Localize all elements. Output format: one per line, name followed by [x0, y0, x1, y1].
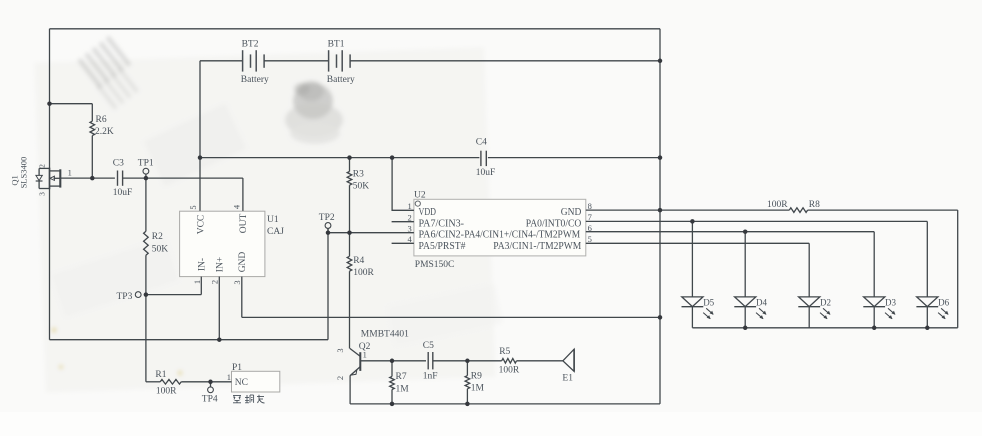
svg-text:100R: 100R — [156, 387, 177, 397]
svg-text:R7: R7 — [396, 372, 407, 382]
svg-text:OUT: OUT — [239, 214, 249, 234]
svg-text:PA3/CIN1-/TM2PWM: PA3/CIN1-/TM2PWM — [493, 241, 581, 252]
svg-text:1: 1 — [227, 372, 231, 382]
svg-text:5: 5 — [188, 205, 198, 209]
svg-text:1: 1 — [363, 349, 367, 359]
svg-text:TP4: TP4 — [202, 394, 218, 404]
svg-text:R4: R4 — [353, 256, 364, 266]
svg-text:U1: U1 — [267, 215, 279, 225]
svg-text:PA6/CIN2-: PA6/CIN2- — [419, 230, 465, 241]
svg-text:R9: R9 — [471, 371, 482, 381]
svg-text:R6: R6 — [96, 115, 107, 125]
svg-text:2: 2 — [408, 212, 412, 222]
svg-text:R3: R3 — [353, 169, 364, 179]
svg-text:10uF: 10uF — [113, 188, 133, 198]
svg-text:50K: 50K — [353, 182, 370, 192]
svg-text:5: 5 — [588, 234, 592, 244]
svg-text:VDD: VDD — [419, 207, 437, 218]
svg-text:2.2K: 2.2K — [95, 127, 114, 137]
svg-text:TP1: TP1 — [138, 159, 154, 169]
svg-text:100R: 100R — [767, 200, 788, 210]
svg-text:1: 1 — [68, 168, 72, 178]
svg-text:GND: GND — [238, 252, 248, 273]
svg-text:50K: 50K — [152, 245, 169, 255]
svg-text:VCC: VCC — [196, 215, 206, 235]
svg-text:4: 4 — [408, 234, 413, 244]
svg-text:D2: D2 — [820, 297, 831, 307]
svg-text:NC: NC — [235, 378, 248, 388]
svg-text:IN+: IN+ — [216, 257, 226, 272]
svg-text:1nF: 1nF — [423, 371, 438, 381]
svg-text:C3: C3 — [113, 159, 124, 169]
svg-text:2: 2 — [335, 376, 345, 380]
svg-text:7: 7 — [588, 212, 592, 222]
svg-text:D5: D5 — [703, 297, 714, 307]
svg-text:Battery: Battery — [241, 75, 269, 85]
svg-text:E1: E1 — [562, 374, 573, 384]
svg-text:3: 3 — [37, 192, 46, 196]
svg-text:Battery: Battery — [327, 75, 355, 85]
svg-text:U2: U2 — [414, 190, 426, 200]
svg-text:MMBT4401: MMBT4401 — [361, 330, 409, 340]
svg-text:PA0/INT0/CO: PA0/INT0/CO — [526, 218, 582, 229]
svg-text:R8: R8 — [809, 200, 820, 210]
svg-text:D6: D6 — [938, 297, 949, 307]
svg-text:3: 3 — [232, 280, 242, 284]
svg-text:4: 4 — [231, 204, 241, 209]
svg-text:100R: 100R — [353, 268, 374, 278]
svg-text:IN-: IN- — [198, 258, 208, 271]
svg-text:3: 3 — [335, 348, 345, 352]
svg-text:R5: R5 — [499, 347, 510, 357]
svg-text:P1: P1 — [232, 363, 242, 373]
svg-text:1M: 1M — [471, 384, 485, 394]
svg-text:PA4/CIN1+/CIN4-/TM2PWM: PA4/CIN1+/CIN4-/TM2PWM — [464, 230, 580, 241]
svg-text:PA7/CIN3-: PA7/CIN3- — [419, 218, 465, 229]
svg-text:1: 1 — [192, 280, 202, 284]
svg-text:CAJ: CAJ — [267, 227, 284, 237]
svg-text:PMS150C: PMS150C — [415, 260, 455, 270]
svg-text:2: 2 — [210, 280, 220, 284]
svg-text:TP2: TP2 — [319, 213, 335, 223]
svg-text:2: 2 — [38, 164, 47, 168]
svg-text:C4: C4 — [476, 137, 487, 147]
svg-text:R2: R2 — [152, 232, 163, 242]
svg-text:D3: D3 — [885, 297, 896, 307]
svg-text:PA5/PRST#: PA5/PRST# — [419, 241, 466, 252]
svg-text:SLS3400: SLS3400 — [19, 157, 29, 189]
svg-text:BT2: BT2 — [242, 40, 259, 50]
svg-text:1: 1 — [408, 201, 412, 211]
svg-text:BT1: BT1 — [328, 40, 345, 50]
svg-text:10uF: 10uF — [476, 168, 496, 178]
svg-text:1M: 1M — [396, 384, 410, 394]
svg-text:D4: D4 — [756, 297, 767, 307]
svg-text:3: 3 — [408, 223, 412, 233]
svg-text:6: 6 — [588, 223, 592, 233]
svg-text:TP3: TP3 — [117, 292, 133, 302]
svg-text:8: 8 — [588, 201, 592, 211]
svg-text:C5: C5 — [423, 341, 434, 351]
svg-text:100R: 100R — [499, 365, 520, 375]
svg-text:R1: R1 — [155, 370, 166, 380]
svg-text:GND: GND — [561, 207, 582, 218]
